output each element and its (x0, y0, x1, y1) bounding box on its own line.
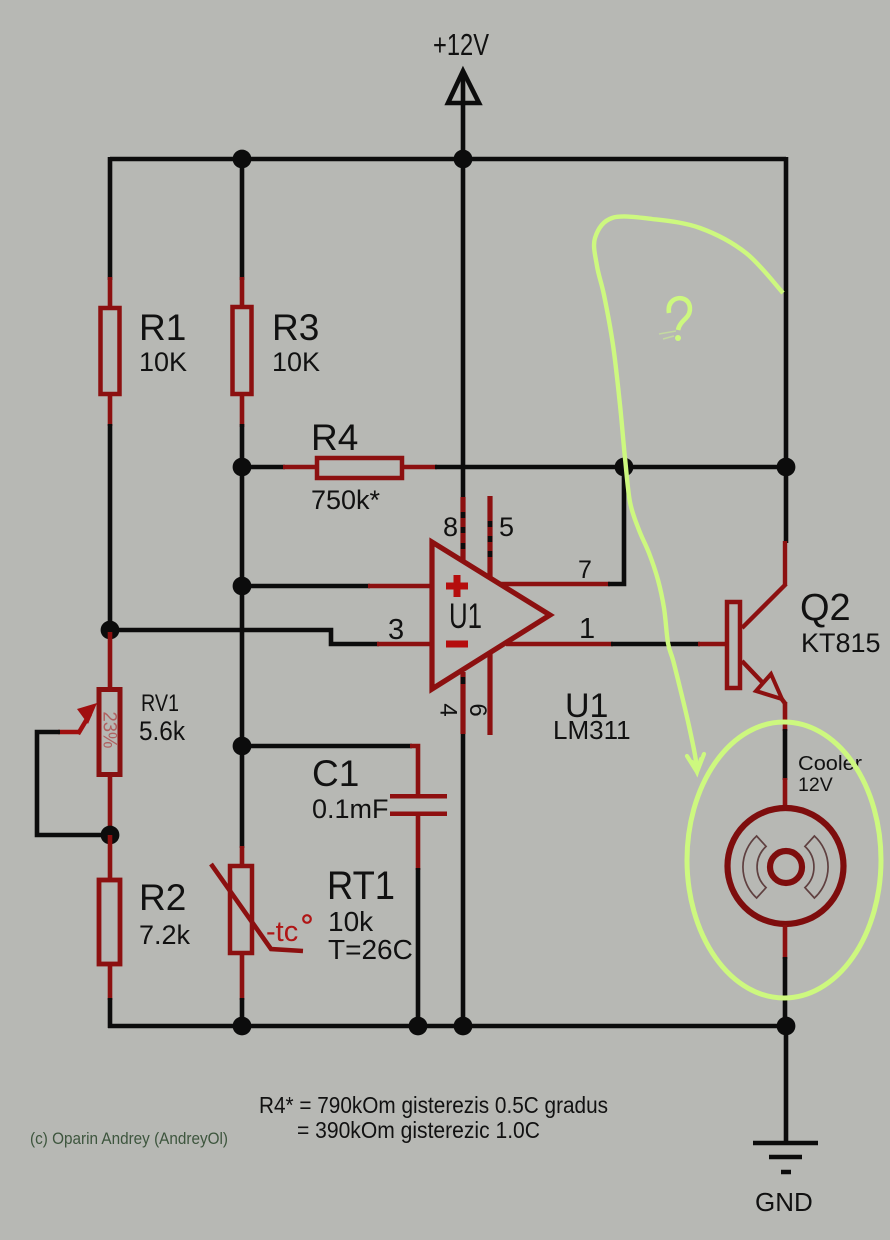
wire R3 column mid (240, 467, 245, 748)
wire R3 to R4 junction (240, 424, 245, 470)
svg-text:23%: 23% (99, 712, 120, 749)
node + input junction (233, 577, 252, 596)
svg-text:R4* = 790kOm gisterezis 0.5C g: R4* = 790kOm gisterezis 0.5C gradus (259, 1092, 608, 1118)
wire + input (242, 584, 370, 589)
power flag symbol (448, 71, 479, 159)
transistor Q2 base bar (727, 602, 740, 688)
svg-text:7.2k: 7.2k (139, 920, 191, 950)
svg-text:-tc: -tc (266, 916, 298, 948)
RV1 wiper arrow (78, 714, 90, 734)
node C1 bottom junction (409, 1017, 428, 1036)
annotation green curve (594, 216, 783, 770)
svg-text:1: 1 (579, 613, 595, 645)
svg-text:7: 7 (578, 556, 592, 584)
wire emitter to cooler (783, 702, 788, 731)
wire left rail upper (108, 157, 113, 280)
wire op-amp pin6 lead (487, 654, 492, 735)
node R1/RV1/pin3 junction (101, 621, 120, 640)
svg-text:R1: R1 (139, 307, 186, 348)
svg-text:R2: R2 (139, 877, 186, 918)
node R3 top junction (233, 150, 252, 169)
svg-text:U1: U1 (449, 597, 482, 636)
transistor Q2 emitter lead (742, 661, 762, 682)
wire pin7 output (500, 582, 610, 587)
svg-text:3: 3 (388, 614, 404, 646)
op-amp plus mark (446, 575, 468, 597)
capacitor C1 (390, 794, 447, 799)
wire RT1 bottom lead (240, 951, 245, 1000)
svg-text:LM311: LM311 (553, 715, 631, 745)
annotation green ellipse (687, 722, 881, 998)
transistor Q2 collector lead (783, 541, 787, 586)
wire C1 top rail (242, 744, 412, 749)
wire op-amp pin4 lead (461, 672, 466, 1028)
svg-text:6: 6 (464, 703, 491, 716)
svg-text:RT1: RT1 (327, 864, 395, 908)
wire pin3 input (110, 630, 379, 644)
wire RV1 wiper loop (58, 732, 79, 733)
wire right rail (784, 157, 789, 543)
svg-text:R4: R4 (311, 417, 358, 458)
svg-text:RV1: RV1 (141, 690, 179, 717)
svg-text:+12V: +12V (433, 27, 489, 62)
wire +12V vertical to op-amp (461, 159, 466, 558)
svg-text:= 390kOm gisterezic 1.0C: = 390kOm gisterezic 1.0C (297, 1117, 540, 1143)
annotation green question mark (669, 298, 690, 330)
ground symbol (753, 1143, 818, 1172)
wire R3 column to RT1 (240, 744, 245, 848)
wire left rail mid (108, 424, 113, 632)
node R4 left junction (233, 458, 252, 477)
resistor R2 (99, 880, 120, 964)
wire R1 top lead (108, 277, 113, 310)
wire op-amp pin5 lead (487, 496, 492, 578)
transistor Q2 emitter arrowhead (756, 674, 782, 699)
wire R4 left lead (240, 465, 285, 470)
svg-text:10K: 10K (139, 347, 187, 377)
svg-text:T=26C: T=26C (328, 934, 413, 965)
annotation green arrowhead (687, 754, 704, 772)
svg-text:GND: GND (755, 1187, 813, 1217)
wire cooler bottom lead (783, 925, 788, 959)
wire top rail (110, 157, 786, 162)
svg-text:750k*: 750k* (311, 485, 381, 515)
resistor R1 (101, 308, 120, 394)
node RV1 bottom junction (101, 826, 120, 845)
wire R4 right lead (402, 465, 437, 470)
op-amp minus mark (446, 641, 468, 648)
wire bottom rail (108, 1024, 788, 1029)
thermistor RT1 diagonal (211, 864, 303, 951)
motor M1 inner circle (770, 851, 802, 883)
svg-text:R3: R3 (272, 307, 319, 348)
wire op-amp pin8 lead (460, 497, 465, 560)
wire R2 bottom lead (108, 962, 113, 1000)
svg-text:12V: 12V (798, 774, 833, 796)
svg-text:10K: 10K (272, 347, 320, 377)
wire pin1 output (506, 642, 613, 647)
wire R3 top lead (240, 157, 245, 280)
svg-text:KT815: KT815 (801, 628, 881, 658)
wire C1 bottom lead (416, 816, 421, 870)
node right rail junction (777, 458, 796, 477)
op-amp U1 triangle (432, 542, 550, 689)
wire RV1 bottom lead (108, 775, 113, 837)
potentiometer RV1 body (99, 690, 120, 775)
wire R1 bottom lead (108, 394, 113, 426)
svg-text:C1: C1 (312, 753, 359, 794)
wire GND lead (784, 1026, 789, 1143)
svg-text:5.6k: 5.6k (139, 716, 185, 746)
motor M1 outer circle (728, 808, 844, 924)
node C1 top junction (233, 737, 252, 756)
svg-text:8: 8 (443, 512, 458, 542)
thermistor RT1 body (230, 866, 252, 953)
node cooler bottom junction (777, 1017, 796, 1036)
node pin4 bottom junction (454, 1017, 473, 1036)
wire R3 bottom lead (240, 394, 245, 427)
resistor R3 (233, 307, 252, 394)
motor M1 left brush (743, 836, 766, 898)
motor M1 right brush (805, 836, 828, 898)
svg-text:(c) Oparin Andrey (AndreyOl): (c) Oparin Andrey (AndreyOl) (30, 1130, 228, 1148)
svg-text:Q2: Q2 (800, 587, 851, 629)
resistor R4 (317, 458, 402, 478)
svg-text:10k: 10k (328, 906, 374, 937)
wire R2 top lead (108, 835, 113, 882)
node RT1 bottom junction (233, 1017, 252, 1036)
node pin7 junction (615, 458, 634, 477)
svg-text:5: 5 (499, 512, 514, 542)
svg-text:0.1mF: 0.1mF (312, 794, 389, 824)
svg-text:4: 4 (435, 703, 462, 716)
node +12V junction (454, 150, 473, 169)
wire RV1 top lead (108, 632, 113, 691)
